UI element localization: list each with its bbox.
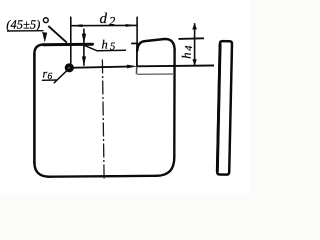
label h4 rotated xyxy=(180,45,196,59)
h4 up arrowhead xyxy=(192,23,197,30)
svg-text:h: h xyxy=(102,38,108,52)
r6 leader line xyxy=(54,70,67,83)
dimension d2 right extension line xyxy=(136,17,138,44)
stem left edge xyxy=(70,44,72,63)
svg-text:d: d xyxy=(100,11,108,27)
stem bottom line extension to h4 xyxy=(137,65,214,68)
step-up corner fillet and top edge right section xyxy=(137,39,164,51)
dimension h4 line xyxy=(194,23,196,66)
bottom-right corner fillet xyxy=(157,158,175,176)
dimension h5 line xyxy=(83,29,85,66)
chamfer leader arrow pointing down xyxy=(42,32,47,43)
h4 down arrowhead xyxy=(192,59,196,66)
left edge xyxy=(33,54,36,163)
h4 top extension line xyxy=(179,37,205,40)
top edge stub at step xyxy=(132,42,137,44)
r6 shelf underline xyxy=(42,79,57,81)
arrow pointing right at step line xyxy=(127,65,138,69)
inner step vertical edge faint lower part xyxy=(136,67,138,75)
svg-text:2: 2 xyxy=(109,14,115,28)
dimension d2 left extension line xyxy=(70,17,72,45)
h5 upper down arrowhead xyxy=(82,34,86,44)
right edge xyxy=(173,50,176,158)
inner step bottom faint line xyxy=(137,73,174,75)
d2 left arrowhead xyxy=(71,24,82,27)
top edge left section xyxy=(44,43,93,47)
svg-text:5: 5 xyxy=(110,42,115,53)
node dot r6 center xyxy=(65,63,74,72)
svg-text:(45±5): (45±5) xyxy=(6,18,40,32)
keycap body outline xyxy=(34,39,174,177)
top-right corner fillet xyxy=(165,39,175,50)
stem bottom line from dot to right xyxy=(69,67,127,68)
h5 leader and shelf xyxy=(85,46,126,51)
side view thick left edge xyxy=(217,44,220,172)
svg-text:4: 4 xyxy=(184,45,195,51)
h5 lower down arrowhead xyxy=(82,56,86,66)
inner step vertical edge xyxy=(136,44,138,67)
dimension d2 line xyxy=(71,24,137,26)
chamfer extension diagonal line xyxy=(48,26,67,43)
bottom edge xyxy=(50,175,157,178)
bottom-left corner fillet xyxy=(34,163,49,177)
vertical dash-dot centerline xyxy=(102,60,104,180)
side view thin plate xyxy=(217,41,232,175)
chamfer label shelf underline xyxy=(7,30,44,32)
svg-text:h: h xyxy=(180,53,194,59)
d2 right arrowhead xyxy=(126,24,137,27)
top-left corner fillet xyxy=(34,45,43,54)
